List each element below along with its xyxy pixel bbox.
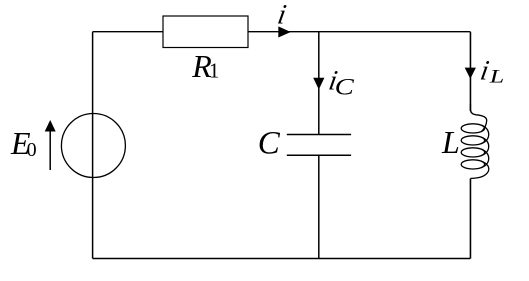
current arrow i bbox=[278, 26, 291, 37]
resistor R1 bbox=[163, 16, 248, 48]
svg-text:C: C bbox=[335, 74, 355, 100]
svg-text:L: L bbox=[441, 124, 460, 160]
label E0 bbox=[10, 125, 37, 161]
svg-text:1: 1 bbox=[209, 59, 220, 83]
label iL bbox=[478, 56, 504, 87]
wire middle branch upper bbox=[318, 32, 320, 135]
E0 arrow bbox=[45, 120, 56, 170]
svg-text:i: i bbox=[275, 0, 288, 30]
capacitor C plates bbox=[287, 135, 351, 156]
wire right vertical upper bbox=[469, 32, 471, 111]
wire bottom horizontal bbox=[93, 258, 471, 260]
svg-text:0: 0 bbox=[27, 139, 37, 161]
wire left vertical bbox=[92, 32, 94, 259]
wire top horizontal bbox=[93, 31, 471, 33]
current arrow iL bbox=[465, 68, 476, 79]
wire right vertical lower bbox=[469, 179, 471, 259]
label iC bbox=[326, 65, 354, 99]
voltage source E0 circle bbox=[61, 114, 125, 178]
svg-text:C: C bbox=[258, 126, 281, 162]
label R1 bbox=[191, 48, 219, 84]
svg-text:L: L bbox=[489, 66, 505, 87]
inductor L coil bbox=[461, 104, 489, 178]
label i bbox=[275, 0, 288, 30]
current arrow iC bbox=[313, 78, 324, 90]
wire middle branch lower bbox=[318, 155, 320, 258]
